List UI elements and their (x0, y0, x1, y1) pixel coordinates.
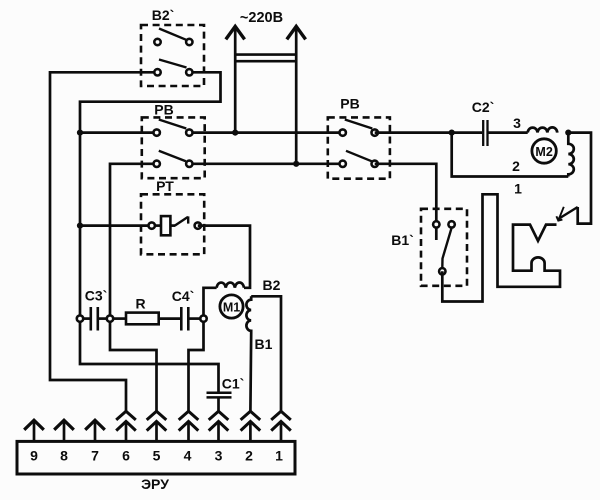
wire: В2` bottom-right contact loop down-left to РВ top rail (80, 72, 221, 392)
svg-text:В1`: В1` (391, 232, 414, 248)
svg-text:С1`: С1` (222, 376, 245, 392)
pin 7 arrow (94, 421, 97, 442)
wire: РВ bottom rail across to right РВ box (189, 162, 342, 165)
switch РВ left box: blades (159, 120, 187, 129)
box РВ right (dashed) (328, 117, 390, 178)
pin 5 chevrons (147, 411, 167, 420)
centrifugal switch blade (558, 207, 578, 220)
svg-text:1: 1 (514, 181, 522, 197)
capacitor C4` plates (180, 307, 183, 331)
РВ right contact circles (340, 129, 346, 135)
svg-text:С3`: С3` (85, 288, 108, 304)
wire: РВ right top output to C2` (375, 131, 482, 134)
wire: C1` bottom to ЭРУ pin 3 (217, 397, 220, 411)
svg-text:С4`: С4` (172, 288, 195, 304)
pin 8 arrow (63, 421, 66, 442)
wire/lever: В1` output to centrifugal mechanism frame (442, 194, 560, 301)
svg-text:2: 2 (512, 158, 520, 174)
motor M2 aux winding (vertical coil) (568, 133, 574, 177)
svg-text:5: 5 (153, 448, 161, 464)
svg-text:4: 4 (184, 448, 192, 464)
node: junction before C2` (449, 130, 455, 136)
РТ contact circles (149, 222, 155, 228)
svg-text:В1: В1 (255, 336, 273, 352)
wire: mains right pole riser (295, 27, 298, 163)
wire: node2 to R (110, 317, 126, 320)
arrowhead: mains right (287, 26, 306, 39)
node: junction feeding РТ relay (77, 223, 83, 229)
node: junction 220V right pole (293, 161, 299, 167)
wire: РТ output down to M1 main winding (198, 226, 250, 288)
svg-text:9: 9 (30, 448, 38, 464)
svg-text:В2`: В2` (152, 7, 175, 23)
wire: C4` to node3 (188, 317, 203, 320)
switch В1`: feed wire from РВ right bottom (375, 164, 437, 221)
svg-text:3: 3 (215, 448, 223, 464)
РТ blade with hook (170, 224, 175, 227)
svg-text:РВ: РВ (340, 96, 359, 112)
capacitor C3` plates (90, 307, 93, 331)
box РВ left (dashed) (142, 117, 205, 178)
wire: junction to right edge and down to centrifugal switch (568, 133, 591, 224)
svg-text:РВ: РВ (154, 102, 173, 118)
pin 3 chevrons (209, 411, 229, 420)
svg-text:7: 7 (91, 448, 99, 464)
svg-text:В2: В2 (263, 277, 281, 293)
svg-text:~220В: ~220В (240, 10, 283, 26)
wire: В2 lead from coil top to ЭРУ pin 1 (251, 296, 281, 411)
pin 4 chevrons (179, 411, 199, 420)
wire: РВ bottom rail from left box to pin 5 drop (110, 164, 157, 412)
node: junction on left bus at РВ top rail (77, 130, 83, 136)
wire: left bus to РТ contact (80, 224, 152, 227)
motor M1 circle (220, 295, 243, 318)
pin 6 chevrons (116, 411, 136, 420)
svg-text:8: 8 (60, 448, 68, 464)
pin 9 arrow (33, 421, 36, 442)
mechanism bump (semicircle) (532, 257, 545, 263)
capacitor C2` plates (482, 120, 484, 146)
switch В2`: top pole blade (159, 29, 186, 40)
capacitor C1` plates (207, 392, 232, 395)
wire: R to C4` (159, 317, 182, 320)
pin 1 chevrons (271, 411, 291, 420)
motor M2 circle (532, 139, 556, 163)
motor M2 main winding (horizontal coil) (528, 127, 558, 132)
switch В2`: bottom pole blade (159, 60, 187, 68)
wire 2: junction down and right to M2 aux winding bottom (452, 133, 569, 177)
node: junction 220V left pole (232, 130, 238, 136)
resistor R (126, 313, 159, 325)
svg-text:ЭРУ: ЭРУ (141, 476, 169, 492)
wire: mains left pole riser (234, 27, 237, 132)
box РТ (dashed) (141, 194, 204, 254)
pin 2 chevrons (241, 411, 261, 420)
wire: M1 winding left end to node and ЭРУ pin 4 (189, 288, 217, 412)
switch РВ right box: blades (345, 120, 373, 129)
ЭРУ terminal box (17, 441, 295, 474)
thermal relay РТ: heater rectangle (155, 224, 162, 227)
svg-text:РТ: РТ (156, 178, 174, 194)
motor M1 start winding (vertical coil) В1/В2 (246, 296, 251, 411)
svg-text:М2: М2 (535, 145, 552, 159)
В1` contact circles (433, 221, 439, 227)
switch В2` contact circles (154, 39, 160, 45)
wire: C3` to node2 (98, 317, 110, 320)
plug symbol: double bar between mains poles (235, 53, 296, 56)
svg-text:3: 3 (513, 115, 521, 131)
box В1` (dashed) (421, 209, 467, 286)
svg-text:1: 1 (275, 448, 283, 464)
В1` left pole stub (435, 228, 438, 240)
wire: В2` bottom-left contact to ЭРУ pin 6 (long left loop) (50, 72, 158, 411)
РВ left contact circles (154, 129, 160, 135)
motion arrow on blade (558, 207, 564, 221)
node: M2 winding common junction (565, 130, 571, 136)
wire: РВ top rail across to right РВ box (189, 131, 342, 134)
wire 3: C2` to M2 main winding (488, 131, 528, 134)
svg-text:6: 6 (122, 448, 130, 464)
svg-text:М1: М1 (223, 301, 240, 315)
svg-text:2: 2 (245, 448, 253, 464)
svg-text:R: R (135, 296, 145, 312)
node circles (open) on RC chain (77, 315, 83, 321)
box В2` (dashed) (141, 25, 204, 86)
wire: node1 to C3` (80, 317, 90, 320)
В1` blade (442, 228, 451, 268)
wire: РВ left box, top row left lead to bus junction (80, 131, 157, 134)
motor M1 main winding (horizontal coil) (217, 282, 244, 287)
arrowhead: mains left (226, 26, 245, 39)
mechanism bracket with V notch (513, 225, 557, 271)
svg-text:С2`: С2` (472, 99, 495, 115)
